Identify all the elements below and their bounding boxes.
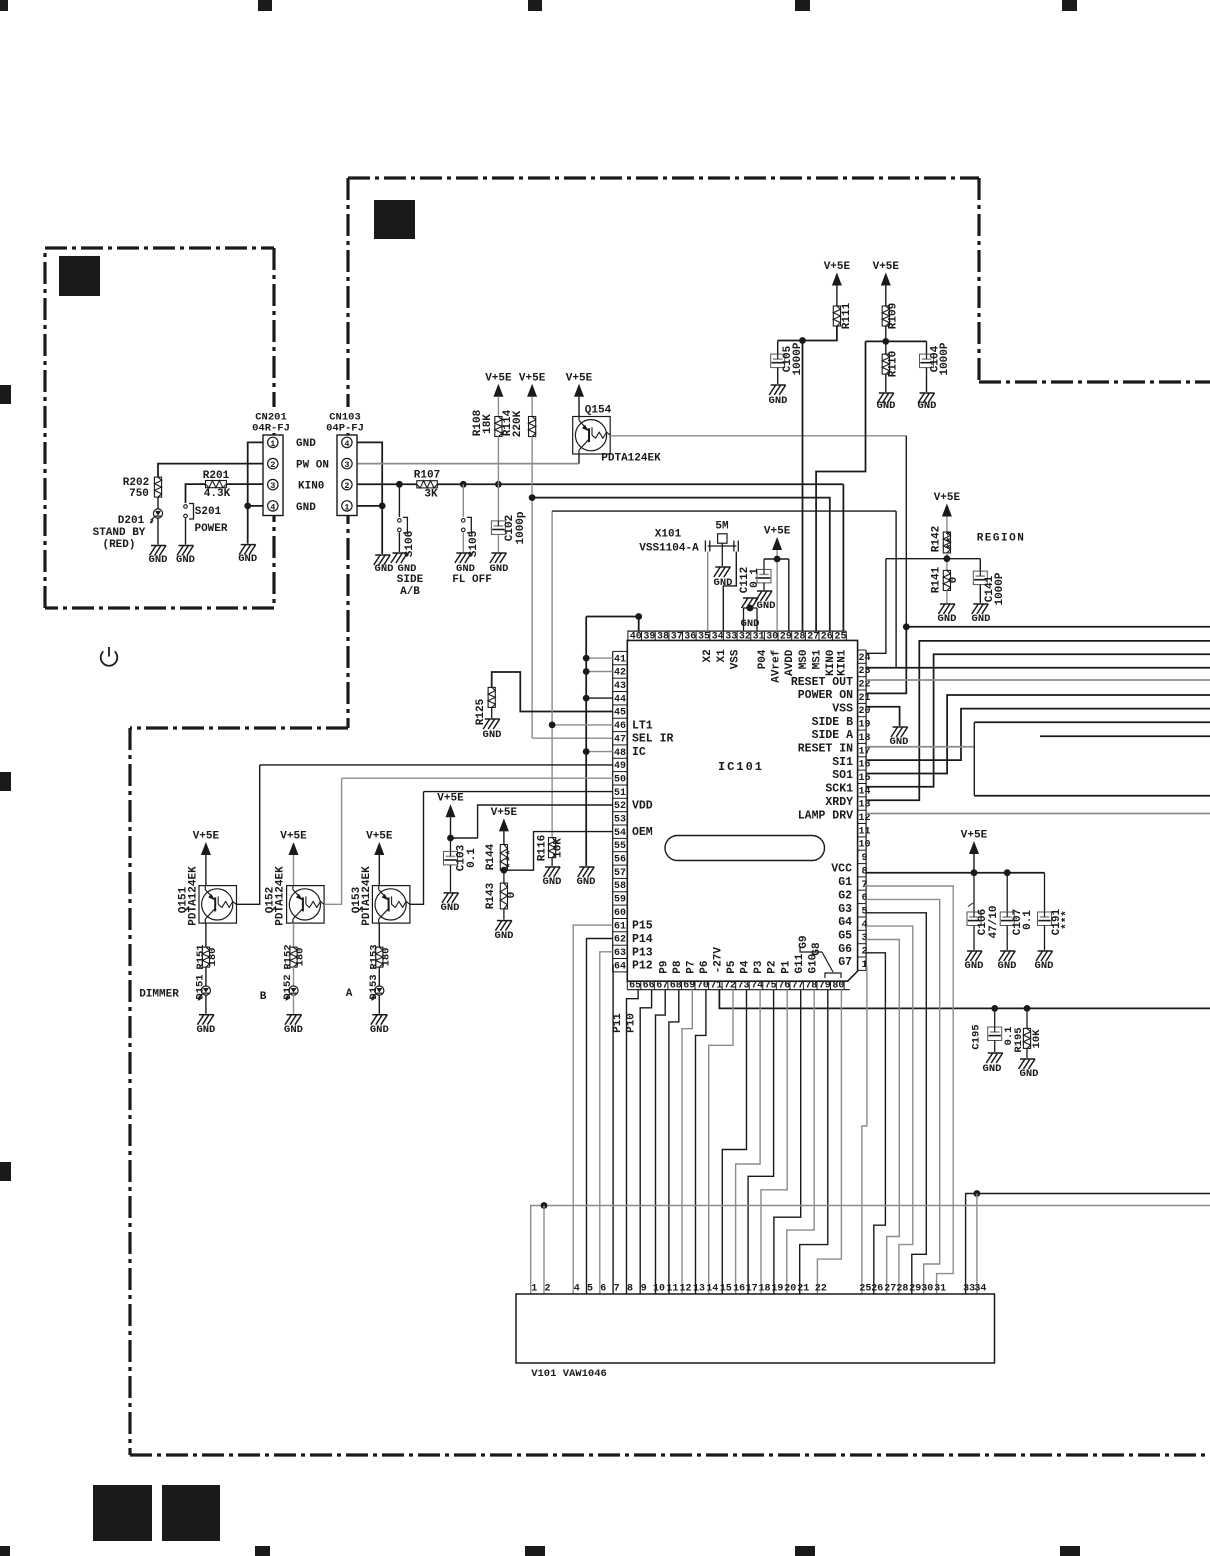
wire IC101 pin61 to V101 pin4: [573, 925, 613, 1294]
transistor Q154: [573, 417, 611, 455]
svg-text:14: 14: [706, 1284, 718, 1295]
junction S106 tap: [396, 481, 403, 488]
wire IC101 pin65 to V101 pin8: [627, 990, 639, 1294]
svg-text:STAND BY: STAND BY: [93, 527, 146, 539]
svg-text:20: 20: [858, 706, 870, 717]
svg-text:GND: GND: [296, 502, 316, 514]
svg-text:P2: P2: [767, 960, 779, 973]
svg-text:GND: GND: [877, 400, 896, 412]
wire IC101 pin75 to V101 pin17: [748, 990, 774, 1294]
svg-text:D152: D152: [282, 974, 294, 999]
svg-text:GND: GND: [577, 876, 596, 888]
page fiducial marks top edge: [0, 0, 8, 11]
section marker black squares (bottom left): [93, 1485, 152, 1541]
svg-text:G11: G11: [794, 953, 806, 973]
svg-text:RESET OUT: RESET OUT: [791, 676, 853, 689]
svg-text:26: 26: [821, 632, 833, 643]
svg-text:14: 14: [858, 786, 870, 797]
IC101 left pin strip: [612, 651, 614, 971]
svg-text:D151: D151: [194, 974, 206, 999]
svg-text:0.1: 0.1: [749, 568, 761, 588]
capacitor C105: [777, 341, 779, 355]
svg-text:P14: P14: [632, 933, 653, 946]
svg-text:4: 4: [861, 920, 867, 931]
svg-text:04P-FJ: 04P-FJ: [326, 423, 364, 435]
resistor R201: [206, 481, 227, 488]
svg-text:PDTA124EK: PDTA124EK: [188, 866, 200, 926]
wire X101 right lead to IC101 pin34: [723, 552, 736, 632]
junction R109/R110 node: [885, 326, 887, 354]
wire IC101 pin78 to V101 pin20: [787, 990, 814, 1294]
ground GND (pin20): [893, 726, 908, 728]
svg-text:R141: R141: [931, 566, 943, 593]
svg-text:68: 68: [670, 980, 682, 991]
LED D152: [293, 967, 295, 986]
svg-text:39: 39: [643, 632, 655, 643]
svg-text:D201: D201: [118, 515, 145, 527]
wire pin23 loop top: [552, 510, 896, 512]
svg-text:42: 42: [614, 668, 626, 679]
capacitor C107: [1006, 873, 1008, 912]
svg-text:12: 12: [858, 813, 870, 824]
wire IC101 pin77 to V101 pin19: [774, 990, 801, 1294]
resistor R151: [202, 947, 209, 967]
svg-text:R110: R110: [888, 351, 900, 377]
svg-text:49: 49: [614, 761, 626, 772]
svg-text:73: 73: [737, 980, 749, 991]
resistor R142: [943, 532, 950, 553]
svg-text:76: 76: [778, 980, 790, 991]
ground GND (R125): [485, 718, 500, 720]
junction CN201 ground bus: [244, 503, 251, 510]
power symbol: [101, 651, 118, 665]
svg-text:5M: 5M: [715, 521, 729, 533]
wire PW ON net CN103 pin3 to Q154: [351, 463, 579, 465]
svg-text:4: 4: [344, 439, 349, 449]
svg-text:25: 25: [859, 1284, 871, 1295]
junction AVref supply node: [774, 556, 781, 563]
junction AVDD node: [799, 337, 806, 344]
svg-text:P9: P9: [658, 960, 670, 973]
wire CN201 pin1 to ground bus: [248, 442, 269, 543]
wire CN201 pin2 to R202: [158, 464, 269, 478]
svg-text:19: 19: [771, 1284, 783, 1295]
IC IC101 body: [627, 640, 857, 981]
svg-text:59: 59: [614, 895, 626, 906]
svg-text:GND: GND: [176, 554, 195, 566]
svg-text:78: 78: [805, 980, 817, 991]
svg-text:2: 2: [544, 1284, 550, 1295]
wire Q152 to R152: [293, 923, 295, 947]
resistor R114: [529, 417, 536, 437]
wire IC101 pin69 to V101 pin12: [682, 990, 692, 1294]
svg-text:R107: R107: [414, 470, 440, 482]
svg-text:A/B: A/B: [400, 586, 420, 598]
wire POWER ON node to right edge: [906, 626, 1210, 628]
svg-text:P11: P11: [612, 1013, 624, 1033]
wire node to IC101 pin27 MS0: [816, 341, 865, 631]
svg-text:R143: R143: [485, 882, 497, 909]
wire IC101 pin79 to V101 pin21: [800, 990, 828, 1294]
svg-text:P3: P3: [753, 960, 765, 974]
svg-text:PW ON: PW ON: [296, 460, 329, 472]
svg-text:G3: G3: [838, 903, 852, 916]
svg-text:P13: P13: [632, 946, 653, 959]
svg-text:P12: P12: [632, 960, 653, 973]
svg-text:R144: R144: [485, 843, 497, 870]
svg-text:29: 29: [780, 632, 792, 643]
svg-text:V+5E: V+5E: [764, 526, 791, 538]
svg-text:22: 22: [815, 1284, 827, 1295]
wire -27V rail from IC101 pin71: [719, 990, 1210, 1009]
junction S105 tap: [460, 481, 467, 488]
svg-text:GND: GND: [149, 554, 168, 566]
svg-text:IC: IC: [632, 746, 646, 759]
capacitor C102: [497, 484, 499, 521]
connector CN103: [329, 407, 365, 433]
wire R201 to S201: [186, 484, 206, 503]
ground GND (R141): [940, 603, 955, 605]
junction R144/R143 node: [501, 867, 508, 874]
wire SEL IR to IC101 pin47: [532, 737, 613, 739]
svg-text:SIDE: SIDE: [397, 574, 424, 586]
dash-dot border of display unit region (large): [348, 176, 979, 179]
capacitor C112: [763, 559, 765, 569]
resistor R125: [488, 687, 495, 707]
power arrow V+5E (R142): [942, 504, 952, 517]
svg-text:750: 750: [129, 488, 149, 500]
wire IC101 pin49 from Q151: [260, 764, 613, 766]
svg-text:DIMMER: DIMMER: [139, 989, 179, 1001]
svg-text:15: 15: [858, 773, 870, 784]
junction R195: [1024, 1005, 1031, 1012]
svg-text:FL OFF: FL OFF: [452, 574, 492, 586]
svg-text:63: 63: [614, 948, 626, 959]
svg-text:64: 64: [614, 961, 626, 972]
wire IC101 pin13 XRDY to right edge: [866, 641, 1210, 800]
svg-text:27: 27: [807, 632, 819, 643]
svg-text:18: 18: [858, 733, 870, 744]
svg-text:GND: GND: [196, 1024, 215, 1036]
svg-text:GND: GND: [1035, 960, 1054, 972]
wire S201 to ground: [185, 519, 187, 545]
power arrow V+5E (R108): [493, 384, 503, 397]
ground GND (C195): [988, 1052, 1003, 1054]
svg-text:R116: R116: [537, 835, 549, 861]
svg-text:***: ***: [946, 530, 958, 550]
power arrow V+5E (AVref): [772, 537, 782, 550]
svg-text:GND: GND: [741, 618, 760, 630]
IC101 internal bar: [665, 836, 825, 861]
svg-text:36: 36: [684, 632, 696, 643]
wire IC101 pin12 LAMP DRV to right edge: [866, 813, 1210, 815]
svg-text:VSS: VSS: [832, 703, 853, 716]
wire IC101 pin67 to V101 pin10: [656, 990, 666, 1294]
svg-text:VSS: VSS: [730, 649, 742, 669]
section marker black square (left box): [59, 256, 100, 296]
svg-text:1000P: 1000P: [939, 342, 951, 375]
LED D201: [153, 509, 162, 518]
resistor R108: [495, 417, 502, 437]
resistor R202: [154, 477, 161, 497]
wire pin23 riser to LT1 loop: [895, 511, 897, 668]
svg-text:SIDE B: SIDE B: [812, 716, 854, 729]
wire IC101 pin46 LT1: [552, 724, 613, 726]
junction C107: [1004, 869, 1011, 876]
svg-text:2: 2: [270, 460, 275, 470]
svg-text:5: 5: [861, 907, 867, 918]
svg-text:GND: GND: [495, 930, 514, 942]
wire KIN1 riser to IC101 pin24: [866, 559, 886, 654]
svg-text:53: 53: [614, 815, 626, 826]
svg-text:16: 16: [858, 760, 870, 771]
svg-text:45: 45: [614, 708, 626, 719]
svg-text:34: 34: [712, 632, 724, 643]
ground GND (C106): [967, 950, 982, 952]
page fiducial marks bottom edge: [0, 1546, 10, 1556]
svg-text:26: 26: [871, 1284, 883, 1295]
svg-text:1: 1: [270, 439, 275, 449]
wire supply node to IC101 pin29: [788, 559, 790, 631]
svg-text:GND: GND: [757, 600, 776, 612]
resistor R144: [500, 845, 507, 871]
svg-text:(RED): (RED): [102, 539, 135, 551]
svg-text:220K: 220K: [512, 410, 524, 437]
wire Q154 base to PW ON line: [578, 454, 580, 464]
svg-text:V101 VAW1046: V101 VAW1046: [531, 1368, 607, 1380]
ground GND (R116): [545, 866, 560, 868]
ground GND (S105): [456, 552, 471, 554]
capacitor C195: [994, 1008, 996, 1027]
svg-text:MS0: MS0: [798, 649, 810, 669]
svg-text:LAMP DRV: LAMP DRV: [798, 809, 853, 822]
svg-text:30: 30: [766, 632, 778, 643]
svg-text:9: 9: [861, 853, 867, 864]
svg-text:19: 19: [858, 720, 870, 731]
wire IC101 pin54 OEM to R144 node: [504, 832, 613, 871]
svg-text:1000p: 1000p: [515, 511, 527, 544]
svg-text:P04: P04: [757, 649, 769, 669]
svg-text:33: 33: [725, 632, 737, 643]
wire REGION node to KIN1 riser: [886, 558, 947, 560]
wire IC101 pin15 SO1 to right edge: [866, 695, 1210, 774]
svg-text:P4: P4: [740, 960, 752, 974]
svg-text:R125: R125: [475, 698, 487, 725]
svg-text:79: 79: [819, 980, 831, 991]
wire IC101 pin70 to V101 pin13: [696, 990, 706, 1294]
svg-text:G1: G1: [838, 876, 852, 889]
svg-text:R142: R142: [931, 526, 943, 552]
svg-text:-27V: -27V: [713, 947, 725, 974]
power arrow V+5E (R111): [832, 273, 842, 286]
junction C103 node: [447, 835, 454, 842]
svg-text:48: 48: [614, 748, 626, 759]
wire IC101 pin40 loop to VSS bundle: [586, 617, 639, 632]
svg-text:GND: GND: [714, 577, 733, 589]
svg-text:AVDD: AVDD: [784, 649, 796, 676]
svg-text:V+5E: V+5E: [280, 831, 307, 843]
resistor R110: [882, 354, 889, 374]
svg-text:1: 1: [531, 1284, 537, 1295]
wire riser to right edge (lower): [974, 795, 1210, 797]
svg-text:SEL IR: SEL IR: [632, 733, 674, 746]
svg-text:G7: G7: [838, 956, 852, 969]
wire IC101 pin68 to V101 pin11: [669, 990, 679, 1294]
svg-text:G5: G5: [838, 930, 852, 943]
svg-text:30: 30: [921, 1284, 933, 1295]
svg-text:R151: R151: [195, 944, 207, 969]
svg-text:31: 31: [934, 1284, 946, 1295]
svg-text:S201: S201: [195, 506, 222, 518]
wire X101 center tap to ground: [721, 543, 723, 566]
svg-text:51: 51: [614, 788, 626, 799]
resistor R109: [882, 306, 889, 326]
svg-text:V+5E: V+5E: [366, 831, 393, 843]
svg-text:35: 35: [698, 632, 710, 643]
svg-text:GND: GND: [998, 960, 1017, 972]
ground GND (C107): [1000, 950, 1015, 952]
svg-text:GND: GND: [483, 729, 502, 741]
svg-text:IC101: IC101: [718, 760, 764, 774]
connector CN201: [255, 407, 291, 433]
svg-text:7: 7: [614, 1284, 620, 1295]
wire IC101 pin76 to V101 pin18: [761, 990, 787, 1294]
svg-text:13: 13: [693, 1284, 705, 1295]
svg-text:21: 21: [858, 693, 870, 704]
svg-text:GND: GND: [296, 438, 316, 450]
svg-text:R195: R195: [1013, 1027, 1025, 1052]
svg-text:P5: P5: [726, 960, 738, 974]
wire CN201 pin4 to ground bus: [248, 505, 269, 507]
svg-text:G10: G10: [807, 954, 819, 974]
svg-text:0.1: 0.1: [1022, 910, 1034, 930]
switch S201: [184, 505, 188, 509]
IC101 top pin strip: [627, 630, 846, 632]
wire supply node to C112: [764, 558, 789, 560]
svg-text:54: 54: [614, 828, 626, 839]
svg-text:13: 13: [858, 800, 870, 811]
svg-text:1000P: 1000P: [792, 342, 804, 375]
svg-text:V+5E: V+5E: [873, 261, 900, 273]
svg-text:VSS1104-A: VSS1104-A: [639, 543, 699, 555]
svg-text:80: 80: [832, 980, 844, 991]
wire IC101 pin17 RESET IN to riser: [866, 746, 974, 748]
wire D153 to ground: [378, 995, 380, 1014]
svg-text:P7: P7: [685, 960, 697, 973]
svg-text:25: 25: [834, 632, 846, 643]
capacitor C191: [1044, 873, 1046, 912]
svg-text:V+5E: V+5E: [566, 372, 593, 384]
svg-text:B: B: [260, 991, 267, 1003]
page fiducial marks left edge: [0, 385, 11, 404]
svg-text:PDTA124EK: PDTA124EK: [601, 453, 661, 465]
svg-text:G9: G9: [798, 935, 810, 948]
resistor R153: [376, 947, 383, 967]
svg-text:REGION: REGION: [977, 533, 1026, 545]
svg-text:4: 4: [270, 502, 275, 512]
wire IC101 pin7 G1 to V101 pin31: [866, 886, 953, 1294]
svg-text:V+5E: V+5E: [491, 807, 518, 819]
power arrow V+5E (Q154): [574, 384, 584, 397]
svg-text:60: 60: [614, 908, 626, 919]
svg-text:77: 77: [792, 980, 804, 991]
wire POWER ON node to IC101 pin21: [866, 627, 906, 694]
svg-text:C195: C195: [970, 1024, 982, 1049]
svg-text:58: 58: [614, 881, 626, 892]
capacitor C103: [450, 838, 452, 851]
svg-text:11: 11: [858, 826, 870, 837]
svg-text:46: 46: [614, 721, 626, 732]
wire IC101 pin3 G5 to V101 pin27: [866, 940, 899, 1295]
svg-text:P1: P1: [780, 960, 792, 974]
svg-text:52: 52: [614, 801, 626, 812]
svg-text:74: 74: [751, 980, 763, 991]
svg-text:PDTA124EK: PDTA124EK: [274, 866, 286, 926]
wire VCC rail: [866, 872, 1044, 874]
svg-text:***: ***: [506, 849, 518, 869]
wire CN201 pin3 to R201: [226, 483, 269, 485]
svg-text:P15: P15: [632, 920, 653, 933]
svg-text:V+5E: V+5E: [519, 372, 546, 384]
svg-text:RESET IN: RESET IN: [798, 743, 853, 756]
svg-text:KIN0: KIN0: [825, 650, 837, 676]
svg-text:V+5E: V+5E: [437, 793, 464, 805]
junction V101 pin34 rail: [974, 1190, 981, 1197]
ground GND (S201): [179, 545, 194, 547]
wire IC101 pin42 to VSS bundle: [586, 671, 613, 673]
svg-text:5: 5: [587, 1284, 593, 1295]
svg-text:GND: GND: [918, 400, 937, 412]
svg-text:GND: GND: [284, 1024, 303, 1036]
svg-text:04R-FJ: 04R-FJ: [252, 423, 290, 435]
svg-text:12: 12: [679, 1284, 691, 1295]
svg-text:17: 17: [858, 746, 870, 757]
svg-text:XRDY: XRDY: [825, 796, 853, 809]
ground GND (C112): [757, 590, 772, 592]
svg-text:47/10: 47/10: [988, 905, 1000, 938]
ground GND (D201): [151, 545, 166, 547]
svg-text:X2: X2: [702, 649, 714, 662]
power arrow V+5E (Q151): [201, 842, 211, 855]
svg-text:21: 21: [797, 1284, 809, 1295]
transistor Q152: [287, 886, 325, 924]
power arrow V+5E (R109): [881, 273, 891, 286]
wire IC101 pin32/31 to ground: [744, 608, 758, 631]
LED D153: [378, 967, 380, 986]
display V101: [516, 1294, 995, 1363]
wire CN103 pin4 to ground bus: [351, 442, 382, 554]
ground GND (R143): [497, 920, 512, 922]
ground GND (VSS pins): [743, 597, 758, 599]
svg-text:34: 34: [974, 1284, 986, 1295]
resistor R116: [549, 838, 556, 858]
svg-text:1: 1: [344, 502, 349, 512]
svg-text:180: 180: [295, 948, 307, 967]
svg-text:SIDE A: SIDE A: [812, 729, 854, 742]
svg-text:VDD: VDD: [632, 800, 653, 813]
svg-text:47: 47: [614, 734, 626, 745]
svg-text:18: 18: [758, 1284, 770, 1295]
ground GND (R110): [879, 392, 894, 394]
svg-text:20: 20: [784, 1284, 796, 1295]
svg-text:0: 0: [506, 892, 518, 899]
svg-text:10K: 10K: [1031, 1029, 1043, 1049]
svg-text:GND: GND: [441, 902, 460, 914]
svg-text:GND: GND: [543, 876, 562, 888]
svg-text:44: 44: [614, 694, 626, 705]
wire IC101 pin14 SCK1 to right edge: [866, 654, 1210, 787]
svg-text:A: A: [346, 988, 353, 1000]
